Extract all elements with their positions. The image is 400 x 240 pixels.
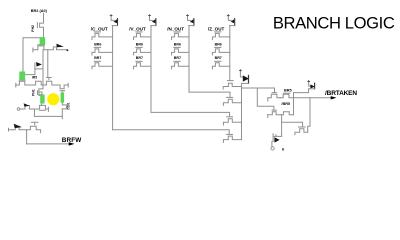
- svg-text:BR5: BR5: [284, 89, 292, 93]
- svg-text:BR7: BR7: [94, 56, 101, 60]
- transistor col2 T1 (gate /V_OUT): [134, 32, 151, 40]
- wire BR2 vertical drop: [43, 13, 45, 22]
- label /V_OUT: [129, 26, 146, 31]
- label /BRTAKEN: [325, 90, 357, 97]
- transistor rowA T2 (gate BR5): [280, 93, 293, 98]
- transistor col4 T2 (gate BR6): [212, 47, 229, 55]
- transistor driver Q14: [295, 129, 308, 135]
- highlight green G1: [40, 37, 46, 44]
- svg-text:PH1: PH1: [32, 89, 36, 96]
- transistor ladder T1: [223, 99, 241, 105]
- transistor ladder T2: [223, 119, 241, 125]
- transistor ladder T0: [223, 83, 241, 89]
- node BR2 (A0) label: [31, 9, 48, 13]
- transistor col1 T1 (gate /C_OUT): [92, 32, 113, 40]
- svg-text:BR6: BR6: [215, 43, 222, 47]
- title BRANCH LOGIC: [273, 14, 395, 33]
- wire BRFW drop: [26, 130, 28, 144]
- label IR5 for Q6: [32, 76, 37, 80]
- wire col2 rail: [150, 26, 152, 113]
- input pin circle: [17, 108, 20, 111]
- wire node to Q7 gate tee: [47, 50, 52, 80]
- label BR6 col3: [174, 43, 181, 47]
- wire P6 to node: [294, 89, 309, 93]
- label /Z_OUT: [208, 26, 225, 31]
- wire col3 rail: [188, 26, 190, 93]
- gate bar driver Q14: [298, 126, 305, 128]
- wire Q8 out jog: [39, 94, 42, 97]
- wire output line: [294, 97, 332, 99]
- label /BR5 rowB: [281, 102, 290, 106]
- wire L1 gate link: [23, 69, 35, 75]
- wire row1 left end bar: [15, 83, 17, 87]
- svg-text:BR6: BR6: [94, 43, 101, 47]
- arrowhead /BRTAKEN: [331, 96, 337, 99]
- transistor Q6 (gate IR5): [36, 81, 47, 85]
- gate bar ladder T3: [227, 133, 233, 135]
- pull-up load col4: [227, 15, 234, 26]
- pull-up load L1 (black arrow): [35, 62, 43, 69]
- gate bar ladder T2: [227, 116, 233, 118]
- pull-up load col2: [149, 15, 156, 26]
- label BRFW: [62, 137, 82, 144]
- label /C_OUT: [91, 26, 108, 31]
- svg-text:/BRTAKEN: /BRTAKEN: [325, 90, 357, 97]
- svg-text:BR6: BR6: [174, 43, 181, 47]
- wire pin lead: [20, 108, 25, 110]
- svg-text:PH2: PH2: [31, 25, 35, 32]
- wire col3 feed to ladder: [189, 92, 230, 97]
- gate bar rowB T1: [272, 109, 276, 111]
- transistor Q9 (black arrow): [24, 103, 35, 109]
- wire BR2 gate drop (under G1): [41, 38, 43, 45]
- wire rowB mid tap: [281, 115, 283, 137]
- wire Q2 drain to pull-up: [42, 50, 44, 62]
- label BR7 col1: [94, 56, 101, 60]
- wire Q15 down lead: [271, 142, 273, 147]
- transistor Q3 (depletion, black arrow): [53, 44, 68, 51]
- transistor col3 T1 (gate /N_OUT): [172, 32, 189, 40]
- label BR6 col2: [136, 43, 143, 47]
- wire rowA ground tick: [267, 98, 269, 101]
- transistor rowA T1 (gate N1): [268, 94, 281, 98]
- label BR6 col1: [94, 43, 101, 47]
- wire col1 feed to ladder: [113, 130, 230, 134]
- svg-text:/BR5: /BR5: [281, 102, 290, 106]
- svg-text:/Z_OUT: /Z_OUT: [208, 26, 225, 31]
- wire driver drain drop: [308, 98, 310, 132]
- transistor Q7b (dip, gate from below): [60, 83, 68, 90]
- svg-text:BR7: BR7: [136, 56, 143, 60]
- wire node line N1: [242, 87, 275, 89]
- transistor Q15 (sideways, black arrow): [273, 134, 282, 143]
- gate bar ladder T0 (from /Z_OUT rail): [227, 80, 233, 82]
- label PHI2 (rotated) for Q1: [31, 25, 35, 32]
- label 6 (net): [282, 146, 285, 151]
- wire row1 to PHI1 drain: [39, 85, 43, 92]
- label BR7 col4: [215, 56, 222, 60]
- transistor ladder T3: [223, 136, 241, 142]
- transistor Q8 PHI1 (sideways): [38, 91, 43, 96]
- wire driver gate feed: [282, 122, 303, 126]
- label BR7 col3: [174, 56, 181, 60]
- arrowhead BRFW: [69, 142, 75, 145]
- transistor Q5 (gate from BR2 wire): [16, 80, 36, 85]
- transistor Q12 (black arrow): [13, 124, 27, 130]
- transistor rowB T2 (gate /BR5): [280, 112, 293, 115]
- pull-up load P5 (stage 1): [239, 70, 249, 84]
- transistor Q1 PHI2 pass (sideways): [37, 22, 43, 38]
- wire right vertical of loop: [61, 109, 63, 117]
- svg-text:/N_OUT: /N_OUT: [167, 26, 184, 31]
- label /N_OUT: [167, 26, 184, 31]
- wire node rail: [241, 84, 243, 140]
- highlight green G2: [19, 72, 25, 80]
- transistor col4 T3 (gate BR7): [212, 61, 229, 69]
- svg-text:BR7: BR7: [174, 56, 181, 60]
- transistor col2 T3 (gate BR7): [134, 61, 151, 69]
- pull-up load col3: [187, 15, 194, 26]
- pull-up load col1: [110, 15, 117, 26]
- transistor col3 T3 (gate BR7): [172, 61, 189, 69]
- label D1x1 (rotated) for Q11: [67, 102, 71, 110]
- pin circle bottom: [271, 147, 274, 150]
- svg-text:BRFW: BRFW: [62, 137, 82, 144]
- transistor Q11 (sideways, highlighted): [62, 91, 67, 109]
- transistor Q2 (gate from BR2): [33, 45, 53, 52]
- svg-text:BRANCH LOGIC: BRANCH LOGIC: [273, 14, 395, 33]
- highlight green G3: [40, 95, 44, 104]
- transistor col4 T1 (gate /Z_OUT): [212, 32, 229, 40]
- transistor col3 T2 (gate BR6): [172, 47, 189, 55]
- label BR7 col2: [136, 56, 143, 60]
- svg-text:BR6: BR6: [136, 43, 143, 47]
- wire G3 drop to Q10 drain: [41, 95, 43, 106]
- highlight yellow circle: [47, 93, 59, 105]
- wire rowB join up: [293, 93, 295, 115]
- label BR5 rowA: [284, 89, 292, 93]
- transistor Q10 (drain from above): [35, 105, 49, 111]
- wire N1 to rowA gate: [272, 88, 276, 93]
- wire N1 branch down: [257, 88, 274, 110]
- wire mid node drop: [34, 109, 36, 116]
- transistor Q13: [27, 122, 41, 132]
- svg-text:BR7: BR7: [215, 56, 222, 60]
- transistor rowB T1: [268, 112, 280, 115]
- label BR6 col4: [215, 43, 222, 47]
- svg-text:/C_OUT: /C_OUT: [91, 26, 108, 31]
- label PHI1 (rotated) for Q8: [32, 89, 36, 96]
- wire BRFW line: [27, 143, 69, 145]
- wire col4 rail: [229, 26, 231, 81]
- svg-text:D1x1: D1x1: [67, 102, 71, 110]
- wire mid horizontal: [35, 116, 63, 118]
- wire col2 feed to ladder: [151, 112, 230, 116]
- transistor Q7 (gate from node): [46, 81, 60, 85]
- wire BR2 elbow to left: [23, 37, 44, 39]
- wire left vertical to row gate: [22, 38, 24, 72]
- pull-up load P6 (output): [308, 80, 315, 88]
- wire rowB ground tick: [267, 115, 269, 118]
- wire col1 rail: [112, 26, 114, 130]
- transistor col1 T2 (gate BR6): [92, 47, 113, 55]
- svg-text:6: 6: [282, 146, 285, 151]
- wire L1 to row1 channel: [42, 69, 44, 85]
- gate bar ladder T1: [227, 96, 233, 98]
- wire gate drop under green G1: [43, 38, 45, 45]
- svg-text:IR5: IR5: [32, 76, 37, 80]
- highlight green G4: [61, 93, 65, 103]
- transistor col2 T2 (gate BR6): [134, 47, 151, 55]
- svg-text:BR2 (A0): BR2 (A0): [31, 9, 48, 13]
- input stub: [9, 128, 13, 131]
- transistor col1 T3 (gate BR7): [92, 61, 113, 69]
- svg-text:/V_OUT: /V_OUT: [129, 26, 146, 31]
